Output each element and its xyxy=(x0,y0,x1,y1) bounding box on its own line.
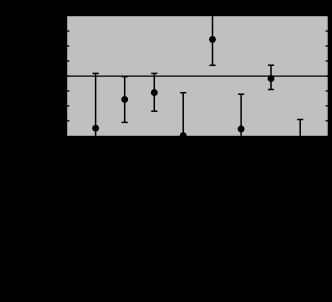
error bar 5 xyxy=(209,16,215,65)
data point 4 xyxy=(180,132,187,139)
error bar 2 xyxy=(122,77,128,123)
error bar 4 xyxy=(180,93,186,136)
right y-axis tick y=106 xyxy=(326,105,329,107)
right y-axis tick y=31 xyxy=(326,30,329,32)
error bar 6 xyxy=(238,94,244,136)
left y-axis tick y=91 xyxy=(66,90,69,92)
error bar 8 xyxy=(297,120,303,136)
data point 3 xyxy=(151,89,158,96)
left y-axis tick y=46 xyxy=(66,45,69,47)
data point 7 xyxy=(268,75,275,82)
right y-axis tick y=91 xyxy=(326,90,329,92)
right y-axis tick y=46 xyxy=(326,45,329,47)
data point 5 xyxy=(209,36,216,43)
data point 6 xyxy=(238,126,245,133)
right y-axis tick y=121 xyxy=(326,120,329,122)
left y-axis tick y=76 xyxy=(66,75,69,77)
plot panel background xyxy=(67,16,328,136)
data point 2 xyxy=(121,96,128,103)
zero line xyxy=(67,75,328,77)
data point 1 xyxy=(92,125,99,132)
right y-axis tick y=76 xyxy=(326,75,329,77)
error bar 3 xyxy=(151,73,157,111)
right y-axis tick y=61 xyxy=(326,60,329,62)
left y-axis tick y=106 xyxy=(66,105,69,107)
left y-axis tick y=61 xyxy=(66,60,69,62)
left y-axis tick y=31 xyxy=(66,30,69,32)
left y-axis tick y=121 xyxy=(66,120,69,122)
error bar 7 xyxy=(268,65,274,89)
error bar 1 xyxy=(93,73,99,135)
